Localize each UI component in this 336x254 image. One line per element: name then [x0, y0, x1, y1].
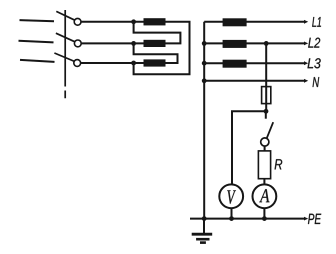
switch S1 blade pole 3	[54, 53, 74, 61]
label PE	[308, 214, 321, 224]
node dot bus N	[202, 78, 207, 83]
wire line N	[204, 80, 305, 82]
wire input phase 3	[20, 60, 55, 62]
wire line PE	[190, 218, 305, 220]
ground bar 3	[200, 241, 206, 244]
node dot bus L3	[202, 61, 207, 66]
wire tap from L2 down	[265, 43, 267, 111]
arrowhead N	[304, 79, 308, 83]
wire switch pole 1 to fuse F1	[81, 21, 143, 23]
switch S1 blade pole 1	[56, 11, 75, 20]
ground bar 1	[192, 233, 213, 236]
fuse F1	[144, 18, 166, 25]
switch S1 gang bar	[64, 10, 66, 98]
node dot phase 2 tap	[131, 41, 136, 46]
arrowhead L2	[304, 42, 308, 46]
wire switch pole 2 to fuse F2	[81, 42, 143, 44]
label L2	[308, 38, 320, 48]
wire switch pole 3 to fuse F3	[81, 62, 144, 64]
wire fuse F3 output loop to phase 2 node	[134, 43, 178, 63]
node dot phase 1 tap	[131, 19, 136, 24]
wire input phase 1	[20, 20, 55, 21]
label N	[313, 77, 320, 87]
fuse F5 on L2	[223, 40, 247, 48]
node dot tap on L2	[264, 41, 269, 46]
wire fuse F2 output loop to phase 1 node	[134, 22, 181, 44]
wire supply bus vertical	[203, 22, 205, 219]
wire ammeter to PE	[263, 208, 265, 218]
wire line L3	[204, 62, 305, 64]
node dot bus PE	[202, 216, 207, 221]
wire resistor R to ammeter	[263, 179, 265, 185]
label L3	[308, 58, 321, 68]
ground stem	[203, 219, 205, 233]
node dot tap junction	[264, 109, 269, 114]
arrowhead L1	[304, 20, 308, 24]
switch S2 blade	[267, 122, 274, 138]
switch S1 contact pole 3	[74, 60, 81, 67]
fuse F6 on L3	[223, 60, 247, 68]
wire line L2	[204, 42, 305, 44]
wire fuse F1 output loop to phase 3 node	[134, 22, 190, 74]
fuse F2	[144, 40, 166, 47]
wire input phase 2	[19, 41, 54, 43]
label A meter letter	[259, 189, 269, 202]
label R	[275, 159, 283, 169]
switch S1 blade pole 2	[56, 33, 75, 42]
ammeter A	[253, 184, 277, 208]
fuse F4 on L1	[223, 18, 247, 26]
arrowhead L3	[304, 61, 308, 65]
fuse F3	[144, 59, 166, 66]
node dot ammeter PE	[262, 216, 267, 221]
switch S1 contact pole 2	[74, 40, 81, 47]
wire voltmeter to PE	[231, 208, 233, 218]
node dot voltmeter PE	[229, 216, 234, 221]
fuse F7 on tap	[262, 87, 271, 104]
switch S2 contact	[261, 138, 269, 146]
wire switch S2 to resistor R	[264, 146, 266, 151]
voltmeter V	[219, 184, 243, 208]
label V meter letter	[227, 190, 236, 204]
ground bar 2	[196, 238, 209, 241]
resistor R	[258, 151, 270, 179]
node dot bus L2	[202, 41, 207, 46]
wire line L1	[204, 21, 305, 23]
node dot phase 3 tap	[131, 61, 136, 66]
arrowhead PE	[304, 217, 308, 221]
wire junction to voltmeter	[232, 111, 266, 184]
label L1	[312, 17, 321, 27]
switch S1 contact pole 1	[74, 18, 81, 25]
wire junction to switch S2	[265, 111, 267, 118]
